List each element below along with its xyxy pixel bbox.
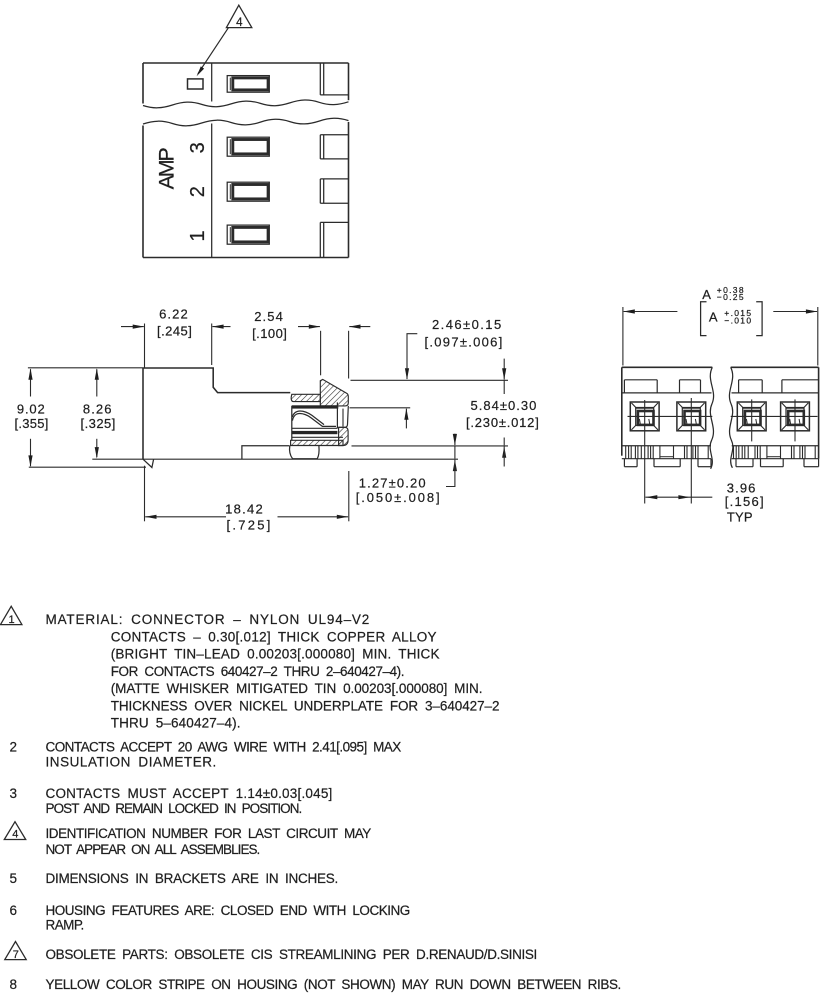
top view: divider line between end wall and circuit area (lower) [211,124,213,258]
top view: right polarizing rib, circuit 2 [320,179,348,203]
svg-text:HOUSING FEATURES ARE: CLOSED E: HOUSING FEATURES ARE: CLOSED END WITH LO… [46,903,411,918]
dimension 6.22 [.245] end wall width [121,307,231,368]
top view: right polarizing rib, circuit 1 [320,222,348,257]
top view: wire slot circuit 1 [227,225,269,244]
front view: contact cavity circuit 4 [781,402,810,431]
section view: contact front peak (hatched) [320,379,348,406]
svg-text:−0.25: −0.25 [717,292,744,302]
dimension 3.96 [.156] TYP contact pitch [645,480,763,524]
svg-text:(MATTE WHISKER MITIGATED TIN 0: (MATTE WHISKER MITIGATED TIN 0.00203[.00… [111,681,483,696]
svg-text:(BRIGHT TIN–LEAD 0.00203[.0000: (BRIGHT TIN–LEAD 0.00203[.000080] MIN. T… [111,647,440,662]
svg-text:NOT APPEAR ON ALL ASSEMBLIES.: NOT APPEAR ON ALL ASSEMBLIES. [46,842,261,857]
svg-text:2: 2 [10,739,18,754]
svg-text:[.156]: [.156] [725,494,764,509]
svg-text:TYP: TYP [727,509,753,524]
top view: right polarizing rib of upper piece [320,63,348,95]
svg-text:[.325]: [.325] [81,416,116,431]
svg-text:[.097±.006]: [.097±.006] [425,334,503,349]
svg-text:18.42: 18.42 [225,501,263,516]
svg-text:5.84±0.30: 5.84±0.30 [471,398,537,413]
svg-text:AMP: AMP [155,147,179,190]
front view: break lines (wavy) [710,367,733,469]
svg-text:5: 5 [10,871,18,886]
svg-text:8.26: 8.26 [83,401,112,416]
front view: contact cavity circuit 2 [677,402,706,431]
svg-text:CONTACTS ACCEPT 20 AWG WIRE WI: CONTACTS ACCEPT 20 AWG WIRE WITH 2.41[.0… [46,739,402,754]
dimension 5.84±0.30 [.230±.012] [466,359,539,467]
svg-text:[.050±.008]: [.050±.008] [356,490,440,505]
svg-text:−.010: −.010 [724,316,751,326]
front view: horizontal centerline [628,415,818,417]
svg-text:CONTACTS – 0.30[.012] THICK CO: CONTACTS – 0.30[.012] THICK COPPER ALLOY [111,629,437,644]
svg-text:OBSOLETE PARTS: OBSOLETE CIS S: OBSOLETE PARTS: OBSOLETE CIS STREAMLININ… [46,947,538,962]
svg-text:1: 1 [187,230,209,241]
front view: contact cavity circuit 3 [737,402,766,431]
svg-text:THICKNESS OVER NICKEL UNDERPLA: THICKNESS OVER NICKEL UNDERPLATE FOR 3–6… [111,698,500,713]
svg-text:MATERIAL: CONNECTOR – NYLON UL: MATERIAL: CONNECTOR – NYLON UL94–V2 [46,612,370,627]
note 8 [10,977,622,992]
svg-text:YELLOW COLOR STRIPE ON HOUSING: YELLOW COLOR STRIPE ON HOUSING (NOT SHOW… [46,977,622,992]
note 2 [10,739,402,769]
dimension 18.42 [.725] overall length [145,466,349,533]
section view: contact box top edge (thick) [292,405,339,408]
svg-text:FOR CONTACTS 640427–2 THRU 2–6: FOR CONTACTS 640427–2 THRU 2–640427–4). [111,664,405,679]
note 3 [10,786,333,816]
svg-text:9.02: 9.02 [17,401,45,416]
extension line: contact box top level [350,407,411,409]
note 6 [10,903,411,932]
dimension 8.26 [.325] housing height [81,368,154,459]
top view: connector body upper piece (broken view) [143,63,349,108]
note 1 text [46,612,500,731]
svg-text:4: 4 [12,829,18,841]
front view: top rib notches [624,380,818,393]
top view: wire slot circuit 2 [227,182,269,201]
svg-text:DIMENSIONS IN BRACKETS ARE IN: DIMENSIONS IN BRACKETS ARE IN INCHES. [46,871,339,886]
extension line: contact seat level [352,445,509,447]
section view: contact spring arm [292,411,336,426]
svg-text:A: A [709,310,718,325]
svg-text:[.230±.012]: [.230±.012] [466,415,539,430]
section view: contact bottom wall (hatched) [291,440,343,445]
front view: body outline with break [622,367,819,458]
section view: contact retention tab below [290,446,319,459]
note 1 flag triangle [1,606,22,626]
dimension 9.02 [.355] overall height [15,368,147,467]
svg-text:INSULATION DIAMETER.: INSULATION DIAMETER. [46,754,217,769]
dimension 1.27±0.20 [.050±.008] [356,434,457,505]
svg-text:[.355]: [.355] [15,416,49,431]
note 4 flag triangle [4,822,25,841]
svg-text:2: 2 [187,186,209,197]
svg-text:1: 1 [8,614,14,626]
top view: identification mark (note 4 target) [188,79,204,89]
note 5 [10,871,339,886]
dimension 2.46±0.15 [.097±.006] [404,317,502,429]
note 7 flag triangle [5,942,26,961]
dimension 2.54 [.100] contact position [252,309,370,379]
svg-text:7: 7 [13,949,19,961]
svg-text:3: 3 [187,142,209,153]
top view: right polarizing rib, circuit 3 [320,135,348,159]
top view: divider line between end wall and circuit area (upper) [211,63,213,102]
front view: contact cavity circuit 1 [630,402,659,431]
svg-text:CONTACTS MUST ACCEPT 1.14±0.03: CONTACTS MUST ACCEPT 1.14±0.03[.045] [46,786,333,801]
front view: lower shroud line [622,445,819,447]
section view: contact box outline [292,402,349,440]
top view: wire slot circuit 3 [227,137,269,156]
section view: contact top wall (hatched) [291,394,320,401]
svg-text:THRU 5–640427–4).: THRU 5–640427–4). [111,716,241,731]
svg-text:A: A [702,287,711,302]
top view: wire slot (last circuit, upper piece) [227,76,269,93]
svg-text:6: 6 [10,903,18,918]
svg-text:4: 4 [236,17,243,29]
svg-text:6.22: 6.22 [159,307,188,322]
svg-text:POST AND REMAIN LOCKED IN POSI: POST AND REMAIN LOCKED IN POSITION. [46,801,303,816]
extension line: contact peak top level [351,379,509,381]
section view: contact front bottom corner (hatched) [339,427,349,445]
svg-text:3: 3 [10,786,18,801]
svg-text:[.725]: [.725] [227,517,271,532]
top view: connector body lower piece (broken view) [143,118,349,257]
svg-text:2.54: 2.54 [254,309,283,324]
dimension A with tolerances (front view width) [623,285,818,366]
svg-text:IDENTIFICATION NUMBER FOR LAST: IDENTIFICATION NUMBER FOR LAST CIRCUIT M… [46,826,372,841]
svg-text:[.100]: [.100] [252,326,287,341]
svg-text:RAMP.: RAMP. [46,917,85,932]
svg-text:[.245]: [.245] [157,324,192,339]
front view: vertical centerlines [645,398,795,504]
flag note triangle 4 with leader arrow [197,5,252,76]
svg-text:2.46±0.15: 2.46±0.15 [432,317,501,332]
note 4 text [46,826,372,857]
svg-text:1.27±0.20: 1.27±0.20 [359,476,426,491]
section view: housing profile [143,368,458,468]
front view: bottom slot pattern [622,446,819,459]
front view: mounting feet [624,459,818,467]
svg-text:8: 8 [10,977,18,992]
